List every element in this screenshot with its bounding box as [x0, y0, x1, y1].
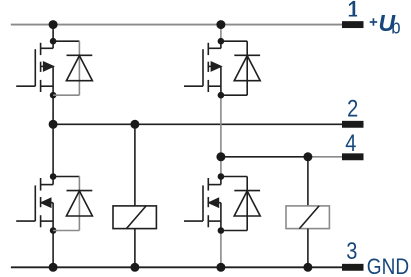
wire: Q3 source to GND rail: [52, 231, 54, 268]
transistor Q4 (N-channel MOSFET, low side right): [184, 177, 221, 231]
node: Q3 drain dot: [50, 173, 57, 180]
wire: middle rail down to load Z1: [134, 124, 136, 206]
node: top rail left junction: [49, 20, 58, 29]
node: Q1 drain dot: [50, 38, 57, 45]
wire: right branch, top rail to Q2 drain: [220, 25, 222, 42]
load Z1 (left load box): [113, 206, 156, 229]
node: Q4 drain dot: [218, 173, 225, 180]
load Z2 (right load box, gray outline): [286, 206, 329, 229]
pin label 3: [346, 237, 357, 264]
wire: pin 4 rail (left black segment): [221, 156, 308, 158]
wire: Q3 body diode loop: [53, 177, 79, 231]
diode D2 (Q2 body diode): [234, 55, 260, 80]
node: Q2 drain dot: [218, 38, 225, 45]
terminal pin 3: [342, 264, 364, 271]
node: pin4 rail left junction: [216, 152, 225, 161]
node: top rail right junction: [216, 20, 225, 29]
node: GND rail junction C: [216, 263, 225, 272]
wire: middle rail to Q3 drain: [52, 124, 54, 176]
net label +Ub: [370, 18, 378, 25]
transistor Q3 (N-channel MOSFET, low side left): [16, 177, 53, 231]
node: GND rail junction A: [49, 263, 58, 272]
pin label 1: [349, 1, 357, 17]
net label GND: [367, 255, 409, 277]
pin label 2: [347, 95, 358, 122]
svg-text:b: b: [391, 15, 400, 38]
node: Q1 source dot: [50, 92, 57, 99]
wire: load Z2 to GND rail: [307, 229, 309, 268]
terminal pin 4: [342, 153, 364, 160]
svg-text:3: 3: [346, 237, 357, 264]
transistor Q1 (P-channel MOSFET, high side left): [16, 41, 53, 95]
wire: pin 2 middle rail: [53, 123, 343, 125]
node: GND rail junction D: [303, 263, 312, 272]
diode D4 (Q4 body diode): [234, 191, 260, 216]
node: middle rail left junction: [49, 120, 58, 129]
svg-text:2: 2: [347, 95, 358, 122]
node: Q2 source dot: [218, 92, 225, 99]
wire: GND bottom rail: [11, 266, 343, 268]
terminal pin 2: [342, 121, 364, 128]
wire: Q4 body diode loop: [221, 177, 247, 231]
node: Q3 source dot: [50, 227, 57, 234]
wire: load Z1 to GND rail: [134, 229, 136, 268]
node: Q4 source dot: [218, 227, 225, 234]
svg-text:4: 4: [345, 129, 356, 156]
wire: Q1 body diode loop: [53, 41, 79, 95]
pin label 4: [345, 129, 356, 156]
wire: +Ub top supply rail: [11, 24, 343, 26]
wire: Q1 source to middle rail: [52, 95, 54, 124]
transistor Q2 (P-channel MOSFET, high side right): [184, 41, 221, 95]
node: middle rail load junction: [130, 120, 139, 129]
node: pin4 rail load junction: [303, 152, 312, 161]
svg-text:GND: GND: [367, 255, 409, 277]
wire: Q2 body diode loop: [221, 41, 247, 95]
wire: pin4 rail down to load Z2: [307, 157, 309, 206]
wire: Q4 source to GND rail: [220, 231, 222, 268]
wire: pin4 junction to Q4 drain: [220, 157, 222, 177]
wire: Q2 source down across middle rail to pin4 junction: [220, 95, 222, 157]
terminal pin 1: [342, 21, 364, 28]
wire: pin 4 rail (gray segment to terminal): [308, 156, 343, 158]
node: GND rail junction B: [130, 263, 139, 272]
diode D3 (Q3 body diode): [66, 191, 92, 216]
diode D1 (Q1 body diode): [66, 55, 92, 80]
wire: left branch, top rail to Q1 drain: [52, 25, 54, 42]
